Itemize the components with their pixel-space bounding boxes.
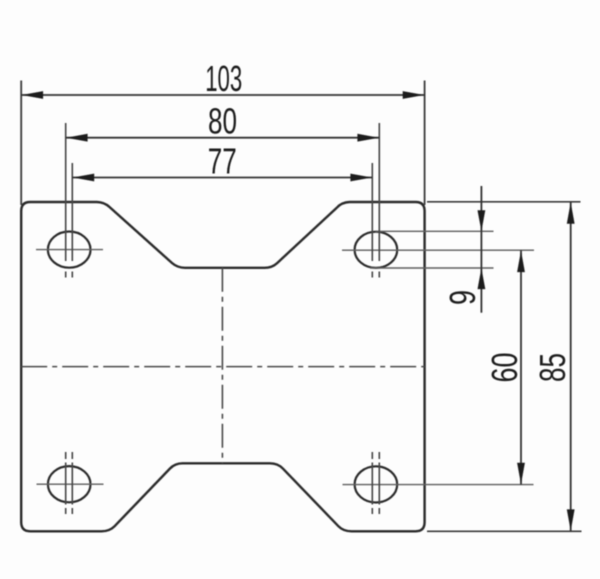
extension line 103 right [424,81,426,206]
extension line 103 left [20,81,22,206]
svg-text:85: 85 [532,353,573,382]
extension line bottom edge right (for dim 85) [427,530,582,532]
vertical hole centerline pair x=72.3 (ext for dim 77 left) [71,163,73,514]
hole top-right [355,232,398,268]
arrow 77 right [350,174,372,182]
dim line 85 [570,202,572,532]
vertical hole centerline pair x=379.3 (ext for dim 80 right) [378,123,380,514]
hole bottom-left [48,466,91,502]
arrow 9 top [478,210,486,231]
svg-text:77: 77 [208,141,237,182]
arrow 85 top [567,202,575,224]
crosshair top-right hole / extension line for 60 top [342,249,534,251]
arrow 80 left [66,134,88,142]
crosshair bottom-left hole [37,483,104,485]
crosshair bottom-right hole / extension line for 60 bottom [343,484,534,486]
arrow 103 left [22,91,43,99]
dim line 77 [72,177,372,179]
crosshair top-left hole [36,249,103,251]
hole top-left [48,232,91,268]
svg-text:9: 9 [442,290,483,305]
svg-text:60: 60 [484,353,525,383]
vertical hole centerline pair x=65.7 (ext for dim 80 left) [65,123,67,514]
arrow 9 bottom [478,268,486,289]
dim line 103 [21,94,424,96]
arrow 77 left [73,174,95,182]
horizontal centerline of plate [21,366,424,368]
svg-text:80: 80 [208,101,237,142]
dim line 60 [520,250,522,484]
extension line top edge right (for dim 85) [427,201,581,203]
arrow 85 bottom [567,509,575,531]
vertical centerline of plate [221,268,223,464]
svg-text:103: 103 [205,58,242,99]
arrow 103 right [403,91,425,99]
vertical hole centerline pair x=372.3 (ext for dim 77 right) [371,163,373,514]
dim line 80 [66,137,380,139]
hole tangent line bottom (for dim 9) [370,267,494,269]
arrow 80 right [357,134,379,142]
plate outline [21,202,424,531]
hole tangent line top (for dim 9) [376,230,494,232]
arrow 60 bottom [517,463,525,485]
arrow 60 top [517,251,525,273]
hole bottom-right [355,466,398,502]
dim line 9 (vertical, outside arrows) [480,186,482,313]
